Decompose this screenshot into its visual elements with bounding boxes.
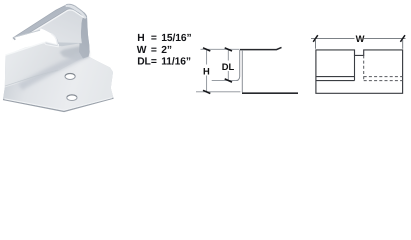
side view: tick H top bbox=[203, 48, 210, 51]
front view: body rectangle with top notch bbox=[316, 50, 403, 93]
front view: fold double line upper bbox=[316, 76, 355, 78]
svg-text:=: = bbox=[151, 45, 157, 56]
3D clip: notch fold bright curve bbox=[52, 34, 58, 44]
front view: solid mid vertical at notch left bbox=[354, 55, 356, 80]
front view: extension stub left bbox=[315, 40, 317, 49]
svg-text:=: = bbox=[151, 57, 157, 68]
svg-text:W: W bbox=[356, 33, 365, 44]
front view: hidden dashed fold upper bbox=[364, 76, 403, 78]
3D clip: down-leg tab seen through notch bbox=[44, 42, 58, 47]
side view: tick DL bottom bbox=[225, 79, 232, 82]
side view: extension line DL bottom bbox=[212, 79, 239, 81]
3D clip: wall-base fold faint line bbox=[5, 70, 58, 86]
3D clip: white wedge and notch cutout bbox=[5, 28, 57, 55]
side view: tick DL top bbox=[225, 48, 232, 51]
front view: W dimension line right segment bbox=[364, 38, 406, 40]
side view: bottom flange bbox=[242, 92, 298, 94]
3D clip: upper hole bbox=[65, 73, 75, 79]
svg-text:DL: DL bbox=[137, 57, 151, 68]
side view: tick H bottom bbox=[203, 90, 210, 93]
3D clip: base bottom highlight bbox=[5, 98, 113, 110]
side view: top flange profile with lip kick bbox=[240, 47, 282, 49]
front view: fold double line lower bbox=[316, 80, 355, 82]
front view: W dimension line left segment bbox=[311, 38, 355, 40]
3D clip: fold rim light between flange and right face bbox=[80, 14, 83, 43]
svg-text:W: W bbox=[137, 45, 147, 56]
3D clip: lip end face bbox=[12, 37, 16, 40]
front view: tick W right bbox=[400, 35, 405, 42]
svg-text:15/16”: 15/16” bbox=[161, 33, 191, 44]
3D clip: fold highlight below lip band bbox=[17, 10, 84, 42]
side view: extension line top bbox=[201, 48, 240, 50]
svg-text:2”: 2” bbox=[161, 45, 172, 56]
side view: H dimension line bbox=[206, 49, 208, 92]
svg-text:H: H bbox=[137, 33, 144, 44]
front view: tick W left bbox=[313, 35, 318, 42]
3D clip: wall ridge highlight bbox=[5, 42, 44, 55]
3D clip: lower hole bbox=[67, 95, 77, 101]
3D clip: overall silhouette underlay bbox=[3, 4, 114, 111]
dimension text block bbox=[137, 33, 192, 68]
front view: hidden dashed fold lower bbox=[364, 80, 403, 82]
3D clip: lip band along ridge bbox=[14, 4, 86, 40]
svg-text:11/16”: 11/16” bbox=[161, 57, 191, 68]
front view: extension stub right bbox=[402, 40, 404, 49]
3D clip: wall bright face bbox=[5, 42, 89, 87]
3D clip: top flange face bbox=[14, 4, 85, 43]
side view: web inner line with curl bbox=[236, 50, 239, 80]
front view: hidden vertical dashed bbox=[363, 55, 365, 80]
3D clip: wall shading under flange toward right bbox=[60, 45, 90, 61]
3D clip: dark right side band bbox=[79, 14, 90, 59]
svg-text:=: = bbox=[151, 33, 157, 44]
side view: extension line H bottom bbox=[196, 91, 240, 93]
3D clip: base plate top face bbox=[3, 57, 114, 112]
svg-text:DL: DL bbox=[222, 61, 235, 72]
svg-text:H: H bbox=[203, 65, 210, 76]
side view: DL dimension line bbox=[227, 49, 229, 80]
3D clip: base bottom edge lines bbox=[3, 98, 114, 111]
side view: web outer line bbox=[241, 50, 243, 92]
3D clip: bright outer bend at corner bbox=[66, 5, 87, 19]
3D clip: shadow band sweeping across base bbox=[20, 53, 87, 87]
3D clip: leg bottom edge line bbox=[14, 30, 40, 37]
